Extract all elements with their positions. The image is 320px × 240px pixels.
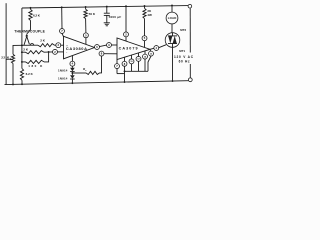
wire: column thermocouple node down to 6.2K: [21, 45, 23, 68]
pin 13 of CA3079: [149, 51, 154, 56]
wire: triac MT1 to bottom rail: [172, 47, 174, 81]
pin 3 of CA3080A: [56, 43, 61, 48]
pin 8 of CA3079: [99, 51, 104, 56]
svg-text:180 K: 180 K: [28, 64, 43, 68]
triac Y1: [165, 33, 180, 48]
resistor 180K feedback: [22, 61, 26, 63]
node: 180K resistor junction: [21, 61, 23, 63]
resistor 6.2K lower: [20, 69, 23, 81]
pin 4 of CA3080A: [71, 56, 73, 62]
wire: 6.2K down to thermocouple bead: [27, 21, 31, 35]
node: diode junction: [71, 72, 73, 74]
svg-text:2 K: 2 K: [23, 48, 29, 52]
wire: CA3080A out to CA3079 in: [99, 45, 106, 47]
wire: Rx up to pin 8: [100, 56, 102, 73]
wire: rail to pin 7: [61, 6, 63, 8]
terminal: AC line bottom: [188, 78, 192, 82]
resistor 6.2K upper: [30, 7, 32, 9]
svg-text:6.2 K: 6.2 K: [33, 14, 41, 18]
wire: ground bus under CA3079: [116, 69, 118, 74]
capacitor 5000 pF: [106, 6, 108, 8]
resistor Rx: [72, 72, 86, 74]
resistor 50K bias: [85, 6, 87, 8]
top supply rail: [22, 6, 188, 8]
pin 4 output of CA3079: [150, 48, 154, 49]
svg-text:MT1: MT1: [179, 49, 185, 53]
load (heater): [171, 5, 173, 7]
pin 6 output of CA3080A: [95, 45, 100, 50]
ground: [106, 15, 108, 22]
wire: rail to pin 2 of CA3079: [125, 5, 127, 7]
pot wiper arrow: [6, 58, 10, 60]
svg-text:4W: 4W: [147, 13, 152, 17]
svg-text:2 K: 2 K: [40, 38, 46, 42]
resistor 2K (lower): [26, 51, 45, 54]
node: 2K lower resistor junction: [21, 51, 23, 53]
pin 7 of CA3080A: [60, 29, 65, 34]
wire: AC line right: [189, 8, 191, 52]
pin 5 of CA3080A: [83, 33, 88, 38]
svg-text:-: -: [66, 50, 67, 54]
pin 10 of CA3079: [131, 55, 133, 59]
pin 8g of CA3079: [124, 57, 126, 61]
left border wire: [5, 3, 7, 84]
pin 14 of CA3079: [144, 51, 146, 54]
wire: thermocouple to 2K: [22, 44, 38, 46]
svg-text:MT2: MT2: [180, 28, 186, 32]
thermocouple bead symbol: [25, 34, 28, 37]
node: input/feedback junction: [48, 51, 50, 53]
wire: lower input: [22, 51, 26, 53]
svg-text:THERMOCOUPLE: THERMOCOUPLE: [14, 30, 45, 34]
pin 12 of CA3079: [138, 53, 140, 57]
wire: 180K up to input node: [44, 52, 49, 62]
op-amp U1 CA3080A: [64, 36, 95, 59]
zero-voltage switch U2 CA3079: [117, 38, 150, 60]
pin 7 of CA3079: [116, 60, 118, 64]
svg-text:1N914: 1N914: [58, 76, 68, 80]
svg-text:LOAD: LOAD: [168, 16, 177, 20]
wire: 50K to pin 5: [85, 19, 87, 33]
svg-text:CA3080A: CA3080A: [66, 46, 87, 51]
svg-text:5000 μF: 5000 μF: [109, 15, 122, 19]
potentiometer 22K set point: [13, 45, 22, 54]
wire: bus drop to rail: [124, 71, 126, 82]
pin 2 of CA3080A: [53, 49, 58, 54]
wire: left column from rail corner to thermocouple node: [21, 8, 23, 45]
wire: gate drive to triac: [159, 45, 166, 48]
svg-text:60 Hz: 60 Hz: [179, 60, 190, 64]
diode D2 1N914: [70, 75, 75, 79]
resistor 2K (upper input): [38, 44, 55, 47]
node: thermocouple junction dot: [21, 44, 23, 46]
pin 5 of CA3079: [142, 36, 147, 41]
pin 9 of CA3079: [107, 43, 112, 48]
svg-text:CA3079: CA3079: [119, 46, 138, 50]
pin 2 of CA3079: [124, 32, 129, 37]
resistor 2K 4W dropping: [144, 5, 146, 7]
svg-text:120 V AC: 120 V AC: [174, 55, 194, 59]
svg-text:1N914: 1N914: [58, 68, 68, 72]
svg-text:6.2 K: 6.2 K: [26, 72, 34, 76]
bottom rail: [5, 81, 189, 85]
svg-text:50 K: 50 K: [89, 12, 96, 16]
terminal: AC line top: [188, 4, 192, 8]
diode D1 1N914: [71, 66, 73, 68]
